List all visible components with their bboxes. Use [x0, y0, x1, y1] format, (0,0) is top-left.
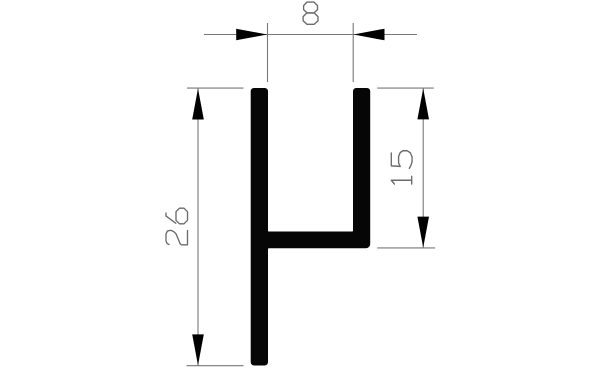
arrowhead dim 26 bottom (points down)	[192, 334, 204, 365]
arrowhead dim 8 left (points right)	[236, 29, 267, 41]
extension line top of dim 15	[377, 87, 434, 89]
dimension text 15 (right, rotated 90 CCW)	[391, 151, 412, 184]
extension line right of dim 8	[352, 23, 354, 82]
extension line bottom of dim 15	[377, 247, 435, 249]
arrowhead dim 15 bottom (points down)	[417, 217, 429, 248]
profile body (h-channel cross-section, solid black)	[251, 88, 371, 366]
dimension line 26 (vertical, left)	[197, 88, 199, 365]
arrowhead dim 8 right (points left)	[354, 29, 385, 41]
extension line top of dim 26	[187, 87, 244, 89]
extension line bottom of dim 26	[187, 365, 244, 367]
arrowhead dim 15 top (points up)	[417, 88, 429, 119]
dimension text 8 (top)	[303, 2, 318, 24]
dimension text 26 (left, rotated 90 CCW)	[166, 208, 188, 245]
arrowhead dim 26 top (points up)	[192, 89, 204, 120]
dimension line 8 (horizontal, top)	[204, 34, 417, 36]
dimension line 15 (vertical, right)	[422, 88, 424, 248]
extension line left of dim 8	[267, 23, 269, 82]
